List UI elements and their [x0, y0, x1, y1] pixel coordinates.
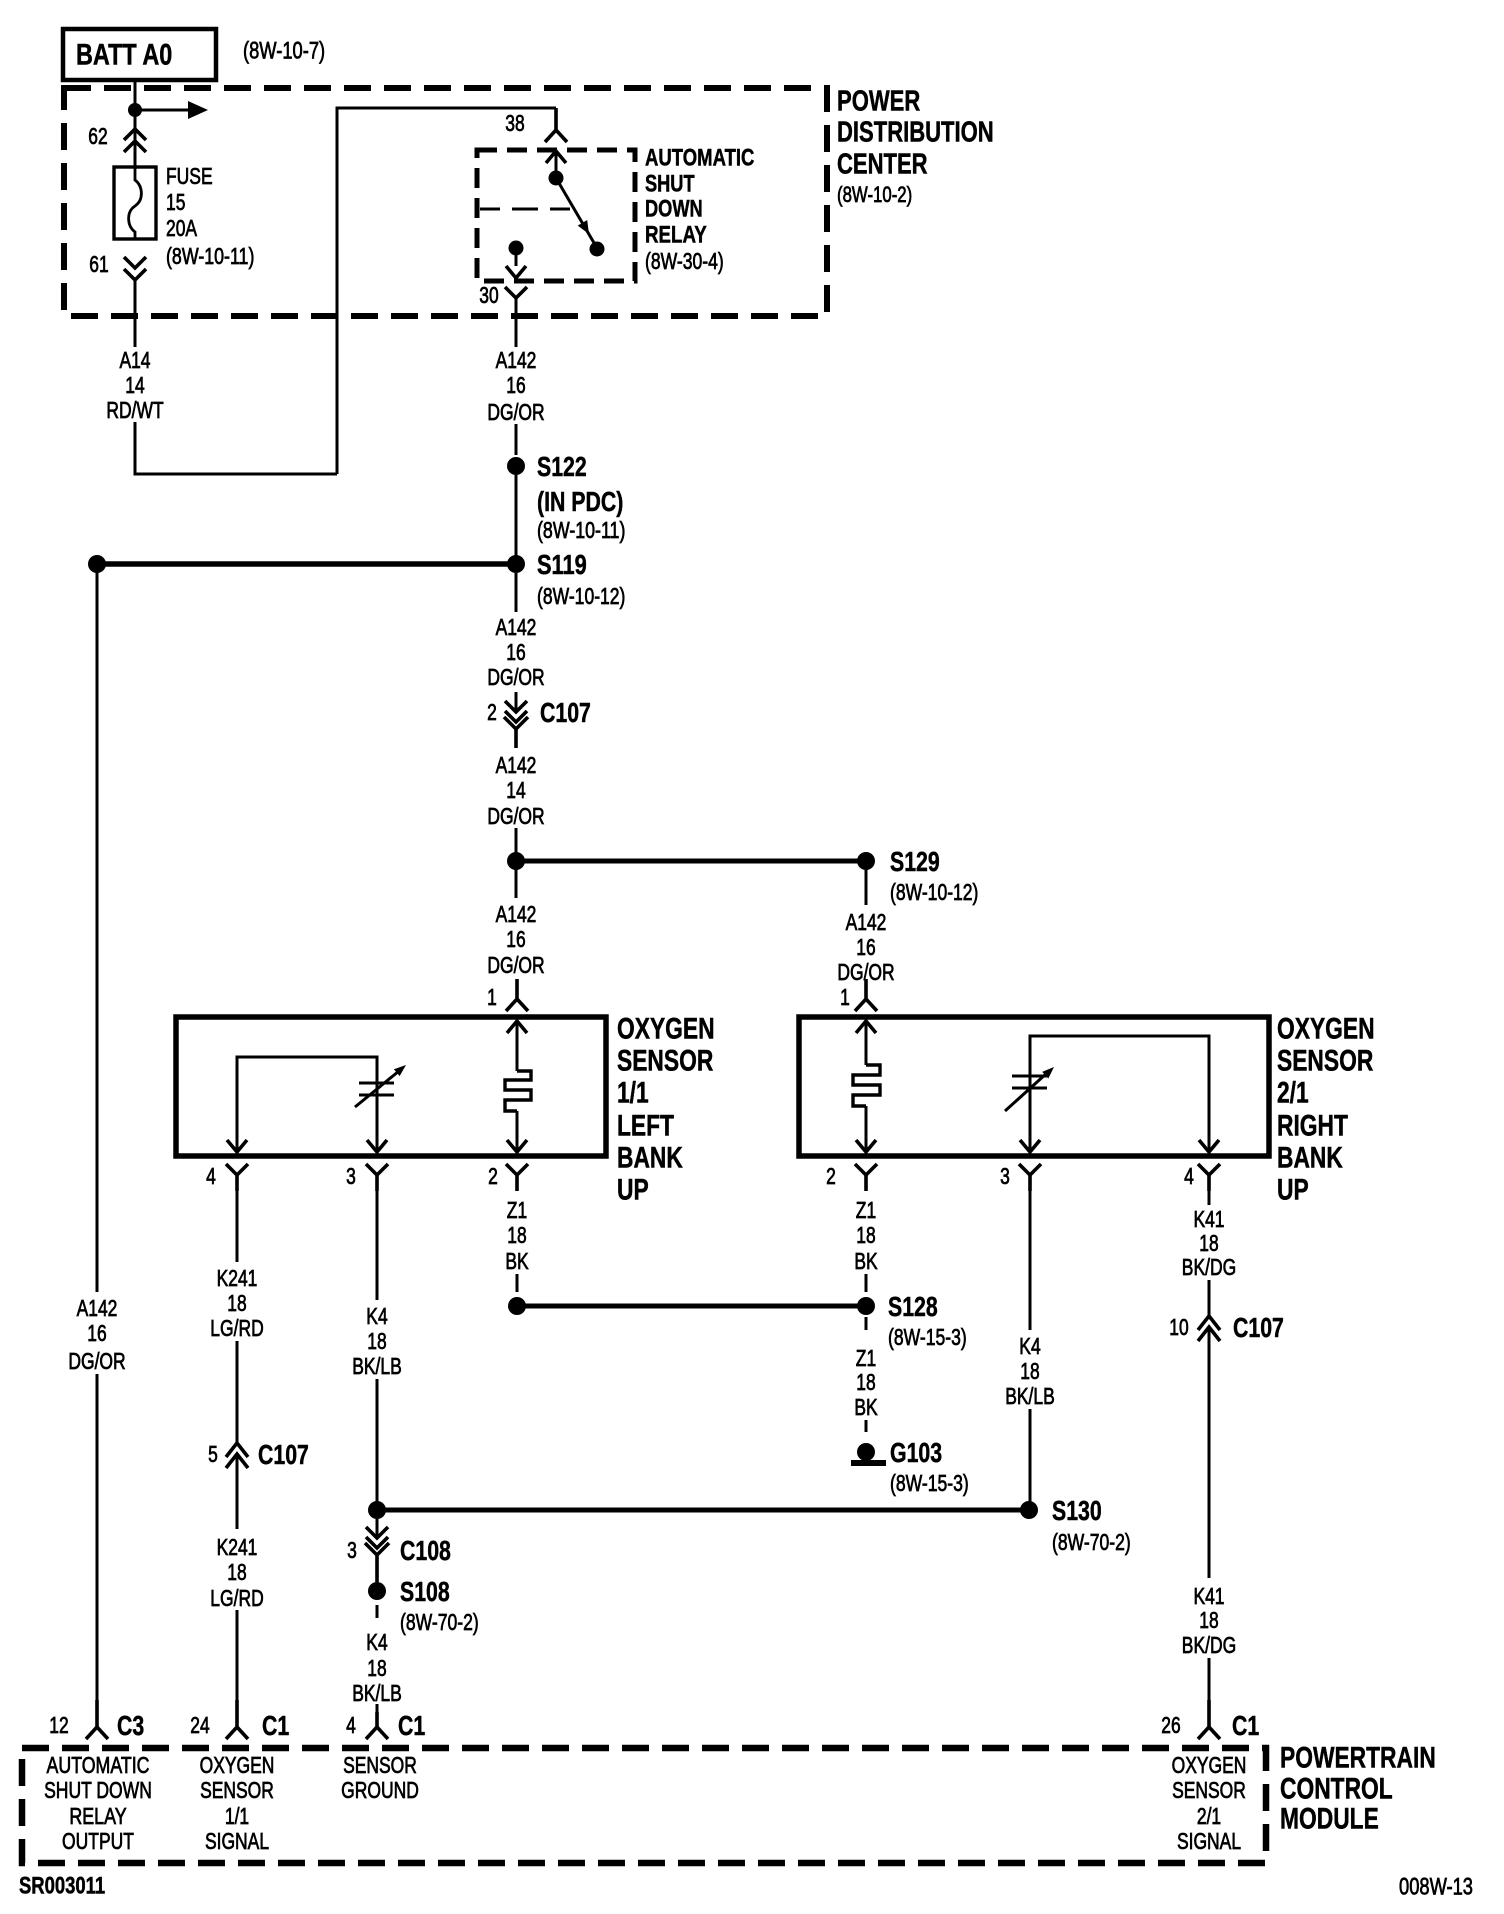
- svg-text:(8W-10-11): (8W-10-11): [166, 243, 254, 269]
- svg-text:2: 2: [488, 1163, 498, 1189]
- wire junction to S130: [377, 1508, 1029, 1513]
- svg-text:RIGHT: RIGHT: [1277, 1110, 1348, 1143]
- svg-text:DISTRIBUTION: DISTRIBUTION: [837, 116, 994, 148]
- svg-text:3: 3: [347, 1537, 357, 1563]
- svg-text:LG/RD: LG/RD: [210, 1315, 263, 1341]
- node Z1 junction: [508, 1297, 526, 1315]
- svg-text:2: 2: [826, 1163, 836, 1189]
- O2 1/1 variable sense element: [359, 1082, 394, 1085]
- svg-text:2: 2: [487, 699, 497, 725]
- svg-text:38: 38: [505, 110, 524, 136]
- svg-text:UP: UP: [617, 1174, 649, 1207]
- O2 1/1 pin 2 terminal: [506, 1164, 528, 1191]
- svg-text:16: 16: [506, 372, 525, 398]
- svg-text:18: 18: [227, 1559, 246, 1585]
- in-line connector 2 C107: [515, 692, 518, 710]
- svg-text:A142: A142: [846, 909, 887, 935]
- O2 1/1 heater wire upper: [516, 1021, 519, 1071]
- fuse terminal 61 chevrons: [124, 257, 146, 268]
- O2 1/1 heater feed arrowhead: [507, 1021, 527, 1033]
- oxygen sensor 2/1 box: [799, 1017, 1269, 1156]
- O2 2/1 pin 2 terminal: [855, 1164, 877, 1191]
- svg-text:BK: BK: [854, 1394, 878, 1420]
- svg-text:K4: K4: [366, 1303, 388, 1329]
- fuse F15 20A: [114, 167, 156, 239]
- relay internal dashed line: [480, 208, 570, 211]
- svg-text:18: 18: [227, 1290, 246, 1316]
- svg-text:(8W-70-2): (8W-70-2): [400, 1609, 479, 1635]
- wire Z1 left down: [516, 1274, 519, 1292]
- svg-text:AUTOMATIC: AUTOMATIC: [47, 1752, 150, 1778]
- O2 2/1 heater wire upper: [865, 1021, 868, 1065]
- svg-text:3: 3: [346, 1163, 356, 1189]
- splice S129: [857, 852, 875, 870]
- svg-text:POWER: POWER: [837, 85, 920, 117]
- wire left branch lower segment: [96, 1374, 99, 1727]
- svg-text:61: 61: [89, 251, 108, 277]
- svg-text:2/1: 2/1: [1197, 1803, 1221, 1829]
- wire pin 30 to PDC edge and below: [515, 298, 518, 347]
- svg-text:SHUT DOWN: SHUT DOWN: [44, 1777, 152, 1803]
- wire left branch down to PCM pin 12: [96, 571, 99, 1292]
- svg-text:18: 18: [367, 1328, 386, 1354]
- wire junction to S129: [516, 859, 866, 864]
- wire K4 right sensor pin 3 down: [1029, 1191, 1032, 1330]
- wire fuse to label A14: [134, 280, 137, 347]
- svg-text:RD/WT: RD/WT: [106, 397, 163, 423]
- wire S122 to S119: [515, 475, 518, 556]
- wire S129 down (right sensor feed): [865, 868, 868, 905]
- svg-text:BK: BK: [505, 1248, 529, 1274]
- wire K41 to connector C107: [1208, 1280, 1211, 1316]
- wire K41 to PCM pin 26: [1208, 1658, 1211, 1727]
- svg-text:18: 18: [856, 1369, 875, 1395]
- wire connector C107 to junction: [515, 828, 518, 853]
- svg-text:(8W-10-12): (8W-10-12): [537, 583, 625, 609]
- svg-text:18: 18: [1199, 1607, 1218, 1633]
- O2 1/1 sense loop wire: [237, 1057, 377, 1152]
- node left branch: [88, 555, 106, 573]
- svg-text:26: 26: [1161, 1712, 1180, 1738]
- svg-text:1: 1: [487, 984, 497, 1010]
- svg-text:16: 16: [856, 934, 875, 960]
- svg-text:BANK: BANK: [617, 1142, 683, 1175]
- svg-text:C3: C3: [117, 1710, 144, 1741]
- svg-text:DG/OR: DG/OR: [487, 952, 544, 978]
- svg-text:(8W-10-12): (8W-10-12): [890, 879, 978, 905]
- splice S130: [1020, 1501, 1038, 1519]
- arrow feed to other circuits: [141, 109, 190, 112]
- splice S119: [507, 555, 525, 573]
- splice S128: [857, 1297, 875, 1315]
- fuse terminal 62 chevrons: [124, 129, 146, 140]
- svg-text:14: 14: [125, 372, 145, 398]
- wire Z1 junction to S128: [517, 1304, 866, 1309]
- O2 2/1 variable sense element: [1012, 1075, 1047, 1078]
- relay switch contact node: [590, 242, 605, 257]
- relay switch arm: [556, 178, 597, 248]
- svg-text:S119: S119: [537, 549, 587, 580]
- svg-text:(8W-10-7): (8W-10-7): [243, 38, 325, 65]
- wire S128 to G103: [865, 1317, 868, 1330]
- splice S108: [368, 1582, 386, 1600]
- svg-text:C107: C107: [540, 697, 591, 728]
- svg-text:24: 24: [190, 1712, 210, 1738]
- wire S119 branch to left: [97, 561, 516, 567]
- svg-text:A142: A142: [496, 347, 537, 373]
- svg-text:C107: C107: [258, 1439, 309, 1470]
- svg-text:S128: S128: [888, 1291, 938, 1322]
- svg-text:16: 16: [506, 639, 525, 665]
- relay pin 38 internal arrowhead and wire: [546, 151, 566, 163]
- splice S122: [507, 457, 525, 475]
- svg-text:BK/LB: BK/LB: [352, 1353, 402, 1379]
- svg-text:BK/DG: BK/DG: [1182, 1632, 1236, 1658]
- O2 1/1 loop arrowhead pin 3: [367, 1140, 387, 1152]
- battery feed box BATT A0: [63, 29, 216, 80]
- power distribution center box: [64, 88, 827, 316]
- svg-text:16: 16: [87, 1320, 106, 1346]
- svg-text:(IN PDC): (IN PDC): [537, 486, 623, 517]
- svg-text:GROUND: GROUND: [341, 1777, 419, 1803]
- wire S119 down: [515, 573, 518, 612]
- node junction below BATT A0: [128, 103, 142, 117]
- svg-text:SENSOR: SENSOR: [617, 1045, 714, 1078]
- wire BATT A0 to fuse terminal 62: [134, 80, 137, 169]
- svg-text:(8W-10-11): (8W-10-11): [537, 517, 625, 543]
- svg-text:UP: UP: [1277, 1174, 1309, 1207]
- svg-text:DG/OR: DG/OR: [487, 664, 544, 690]
- O2 2/1 loop arrowhead pin 3: [1020, 1140, 1040, 1152]
- svg-text:30: 30: [479, 282, 498, 308]
- svg-text:4: 4: [346, 1712, 356, 1738]
- wire K241 to PCM pin 24: [236, 1610, 239, 1727]
- svg-text:SENSOR: SENSOR: [343, 1752, 417, 1778]
- svg-text:1/1: 1/1: [617, 1077, 649, 1110]
- svg-text:A14: A14: [119, 347, 150, 373]
- svg-text:K41: K41: [1193, 1206, 1224, 1232]
- wire Z1 right down to S128: [865, 1274, 868, 1292]
- svg-text:C1: C1: [1232, 1710, 1259, 1741]
- svg-text:(8W-70-2): (8W-70-2): [1052, 1529, 1131, 1555]
- svg-text:AUTOMATIC: AUTOMATIC: [645, 145, 754, 172]
- svg-text:SENSOR: SENSOR: [200, 1777, 274, 1803]
- svg-text:C107: C107: [1233, 1312, 1284, 1343]
- svg-text:16: 16: [506, 926, 525, 952]
- O2 1/1 loop arrowhead pin 4: [227, 1140, 247, 1152]
- svg-text:C108: C108: [400, 1535, 451, 1566]
- PCM pin 12 terminal: [86, 1700, 108, 1739]
- svg-text:S130: S130: [1052, 1495, 1102, 1526]
- svg-text:POWERTRAIN: POWERTRAIN: [1280, 1742, 1436, 1775]
- ground G103: [857, 1443, 875, 1461]
- O2 1/1 heater wire lower with arrowhead: [516, 1111, 519, 1150]
- O2 sensor 2/1 pin 1 terminal: [855, 979, 877, 1011]
- svg-text:FUSE: FUSE: [166, 163, 213, 189]
- wire K41 from pin 4 (right): [1208, 1191, 1211, 1205]
- svg-text:18: 18: [1020, 1358, 1039, 1384]
- svg-text:BK: BK: [854, 1248, 878, 1274]
- wire K241 from pin 4: [236, 1191, 239, 1262]
- wire to splice S122: [515, 424, 518, 455]
- svg-text:1/1: 1/1: [225, 1803, 249, 1829]
- O2 2/1 loop arrowhead pin 4: [1199, 1140, 1219, 1152]
- svg-text:1: 1: [840, 984, 850, 1010]
- relay common contact node: [549, 171, 564, 186]
- svg-text:S129: S129: [890, 846, 940, 877]
- svg-text:K4: K4: [1019, 1333, 1041, 1359]
- PCM pin 4 terminal: [366, 1712, 388, 1739]
- svg-text:20A: 20A: [166, 215, 198, 241]
- svg-text:008W-13: 008W-13: [1399, 1874, 1473, 1901]
- svg-text:RELAY: RELAY: [69, 1803, 126, 1829]
- PCM pin 24 terminal: [226, 1700, 248, 1739]
- svg-text:SENSOR: SENSOR: [1172, 1777, 1246, 1803]
- svg-text:OXYGEN: OXYGEN: [617, 1013, 715, 1046]
- O2 2/1 heater wire lower with arrowhead: [865, 1106, 868, 1150]
- svg-text:A142: A142: [77, 1295, 118, 1321]
- svg-text:A142: A142: [496, 752, 537, 778]
- svg-text:14: 14: [506, 777, 526, 803]
- svg-text:(8W-15-3): (8W-15-3): [888, 1324, 967, 1350]
- svg-text:CENTER: CENTER: [837, 148, 928, 180]
- svg-text:OUTPUT: OUTPUT: [62, 1828, 134, 1854]
- svg-text:3: 3: [1000, 1163, 1010, 1189]
- powertrain control module box: [22, 1748, 1266, 1863]
- node main junction: [507, 852, 525, 870]
- wire K4 to S130 junction: [376, 1379, 379, 1502]
- wire to ground G103: [865, 1420, 868, 1432]
- svg-text:RELAY: RELAY: [645, 222, 707, 249]
- svg-text:BK/DG: BK/DG: [1182, 1254, 1236, 1280]
- svg-text:(8W-30-4): (8W-30-4): [645, 248, 724, 274]
- in-line connector 10 C107: [1198, 1316, 1220, 1330]
- svg-text:SIGNAL: SIGNAL: [1177, 1828, 1241, 1854]
- svg-text:DG/OR: DG/OR: [487, 399, 544, 425]
- relay output contact node: [509, 241, 524, 256]
- automatic shut down relay box: [477, 150, 635, 281]
- svg-text:(8W-15-3): (8W-15-3): [890, 1470, 969, 1496]
- wire S108 down: [376, 1605, 379, 1618]
- svg-text:Z1: Z1: [856, 1197, 876, 1223]
- wire A14 up to relay pin 38: [337, 108, 556, 474]
- wire K241 to connector C107: [236, 1341, 239, 1443]
- svg-text:15: 15: [166, 189, 185, 215]
- O2 2/1 heater element: [853, 1065, 880, 1106]
- svg-text:BANK: BANK: [1277, 1142, 1343, 1175]
- svg-text:S122: S122: [537, 451, 587, 482]
- svg-text:Z1: Z1: [507, 1197, 527, 1223]
- svg-text:MODULE: MODULE: [1280, 1803, 1379, 1836]
- in-line connector 5 C107: [226, 1443, 248, 1457]
- svg-text:(8W-10-2): (8W-10-2): [837, 182, 912, 207]
- O2 1/1 pin 3 terminal: [366, 1164, 388, 1191]
- relay pin 30 terminal: [505, 287, 527, 298]
- svg-text:2/1: 2/1: [1277, 1077, 1309, 1110]
- svg-text:OXYGEN: OXYGEN: [1277, 1013, 1375, 1046]
- wire A14 down and to the right: [135, 422, 337, 474]
- wire junction down (left sensor feed): [515, 868, 518, 898]
- svg-text:SHUT: SHUT: [645, 171, 695, 198]
- svg-text:C1: C1: [262, 1710, 289, 1741]
- O2 2/1 heater feed arrowhead: [856, 1021, 876, 1033]
- svg-text:18: 18: [1199, 1230, 1218, 1256]
- PCM pin 26 terminal: [1198, 1700, 1220, 1739]
- svg-text:G103: G103: [890, 1437, 942, 1468]
- svg-text:LG/RD: LG/RD: [210, 1585, 263, 1611]
- svg-text:K41: K41: [1193, 1583, 1224, 1609]
- svg-text:S108: S108: [400, 1576, 450, 1607]
- svg-text:LEFT: LEFT: [617, 1110, 674, 1143]
- svg-text:SENSOR: SENSOR: [1277, 1045, 1374, 1078]
- svg-text:OXYGEN: OXYGEN: [1172, 1752, 1247, 1778]
- O2 1/1 pin 4 terminal: [226, 1164, 248, 1191]
- wire K4 right to S130: [1029, 1409, 1032, 1502]
- O2 2/1 pin 4 terminal: [1198, 1164, 1220, 1191]
- in-line connector 3 C108: [376, 1519, 379, 1536]
- svg-text:DOWN: DOWN: [645, 196, 703, 223]
- relay output wire with arrowhead: [515, 254, 518, 266]
- svg-text:Z1: Z1: [856, 1345, 876, 1371]
- svg-text:18: 18: [856, 1222, 875, 1248]
- svg-text:K241: K241: [217, 1534, 258, 1560]
- svg-text:DG/OR: DG/OR: [68, 1348, 125, 1374]
- svg-text:K241: K241: [217, 1265, 258, 1291]
- svg-text:BK/LB: BK/LB: [1005, 1383, 1055, 1409]
- O2 1/1 heater element: [505, 1071, 531, 1111]
- svg-text:SR003011: SR003011: [19, 1873, 105, 1900]
- svg-text:DG/OR: DG/OR: [487, 803, 544, 829]
- svg-text:C1: C1: [398, 1710, 425, 1741]
- oxygen sensor 1/1 box: [176, 1017, 606, 1156]
- svg-text:BATT A0: BATT A0: [76, 39, 172, 72]
- relay pin 38 terminal: [545, 108, 567, 142]
- svg-text:4: 4: [206, 1163, 216, 1189]
- svg-text:4: 4: [1184, 1163, 1194, 1189]
- node K4 junction: [368, 1501, 386, 1519]
- svg-text:K4: K4: [366, 1629, 388, 1655]
- svg-text:10: 10: [1169, 1314, 1188, 1340]
- svg-text:12: 12: [49, 1712, 68, 1738]
- svg-text:A142: A142: [496, 901, 537, 927]
- O2 sensor 1/1 pin 1 terminal: [506, 979, 528, 1011]
- O2 2/1 sense loop wire: [1030, 1036, 1209, 1152]
- O2 2/1 pin 3 terminal: [1019, 1164, 1041, 1191]
- svg-text:5: 5: [208, 1441, 218, 1467]
- wire K4 from pin 3 (left): [376, 1191, 379, 1300]
- svg-text:18: 18: [507, 1222, 526, 1248]
- svg-text:A142: A142: [496, 614, 537, 640]
- svg-text:CONTROL: CONTROL: [1280, 1773, 1393, 1806]
- svg-text:SIGNAL: SIGNAL: [205, 1828, 269, 1854]
- svg-text:62: 62: [88, 123, 107, 149]
- svg-text:18: 18: [367, 1655, 386, 1681]
- svg-text:BK/LB: BK/LB: [352, 1680, 402, 1706]
- svg-text:OXYGEN: OXYGEN: [200, 1752, 275, 1778]
- wire K4 to PCM pin 4: [376, 1704, 379, 1727]
